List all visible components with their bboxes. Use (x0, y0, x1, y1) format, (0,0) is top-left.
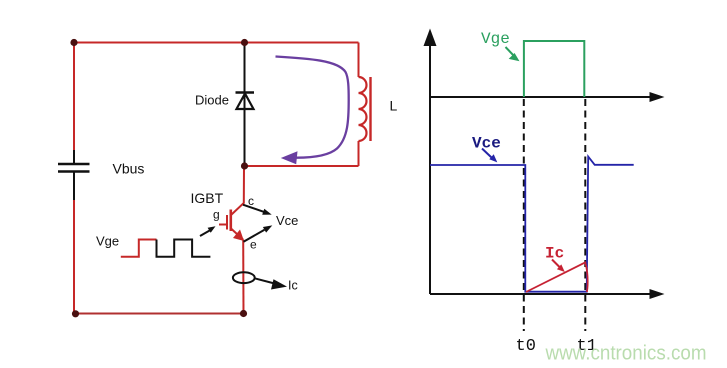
svg-text:Ic: Ic (288, 279, 298, 293)
arrow Ic (255, 278, 287, 289)
IGBT Q1 body bar (230, 210, 233, 232)
arrow Vge label (506, 47, 520, 61)
svg-text:Vbus: Vbus (113, 161, 145, 177)
wire: capacitor bottom lead (black) (73, 173, 75, 201)
wire: diode branch (black) (244, 43, 246, 167)
wire: bottom bus (red) (74, 313, 244, 315)
Vge green pulse (524, 41, 584, 97)
wire: upper loop bottom (red) (245, 165, 359, 167)
freewheeling current purple arrow (276, 57, 349, 165)
arrow Vce label (482, 149, 497, 163)
IGBT Q1 gate lead (219, 224, 226, 226)
horizontal axis lower (430, 289, 665, 299)
svg-text:Diode: Diode (195, 93, 229, 108)
wire: right branch upper (red) (358, 43, 360, 78)
node bottom emitter (240, 310, 247, 317)
wire: right branch lower (red) (358, 141, 360, 166)
arrow Ic label (552, 260, 565, 273)
svg-text:IGBT: IGBT (191, 190, 224, 206)
arrow e to Vce (244, 225, 273, 241)
IGBT Q1 collector lead (red) (231, 166, 244, 215)
inductor L coil (359, 77, 367, 141)
current probe ellipse (233, 272, 255, 283)
svg-text:e: e (250, 238, 257, 252)
svg-text:Ic: Ic (545, 245, 564, 263)
node bottom-left (72, 310, 79, 317)
IGBT Q1 gate bar (226, 215, 228, 230)
svg-text:t0: t0 (516, 337, 536, 356)
gate drive square wave (red part) (121, 240, 157, 257)
dashed line t0 (523, 99, 525, 331)
svg-text:www.cntronics.com: www.cntronics.com (545, 343, 707, 365)
svg-text:Vge: Vge (481, 30, 510, 48)
horizontal axis upper (430, 92, 665, 102)
diode D1 (236, 93, 255, 110)
node top-left (70, 39, 77, 46)
svg-text:Vce: Vce (276, 213, 298, 228)
wire: left branch lower (red) (73, 200, 75, 314)
svg-text:Vge: Vge (96, 234, 119, 249)
svg-text:L: L (390, 98, 398, 114)
wire: capacitor top lead (black) (73, 150, 75, 163)
vertical axis (424, 29, 437, 295)
IGBT Q1 emitter with arrow (231, 229, 244, 242)
inductor L core bar (369, 77, 371, 141)
Ic red ramp (526, 262, 588, 292)
node diode bottom (241, 162, 248, 169)
arrow Vge to gate (200, 226, 216, 236)
wire: top bus (red) (74, 42, 359, 44)
svg-text:g: g (213, 208, 220, 222)
arrow c to Vce (243, 205, 272, 215)
svg-text:Vce: Vce (472, 135, 501, 153)
gate drive square wave (black part) (157, 240, 211, 257)
wire: left branch upper (red) (73, 43, 75, 151)
capacitor Vbus (58, 164, 90, 172)
Vce blue waveform (430, 157, 634, 292)
node top diode (241, 39, 248, 46)
dashed line t1 (584, 99, 586, 331)
wire: emitter lead down (red) (242, 240, 244, 314)
